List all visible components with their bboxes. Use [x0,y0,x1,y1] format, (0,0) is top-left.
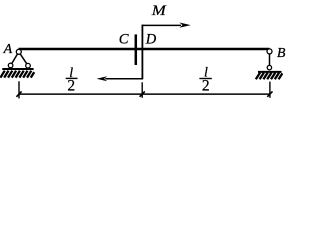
svg-text:D: D [145,31,157,47]
svg-text:A: A [3,42,13,57]
roller support B: ground line [258,71,282,73]
pin support A: ground line [2,68,33,70]
dimension line [19,93,270,95]
pin support A: bottom right roller circle [26,63,31,68]
svg-text:M: M [151,3,168,19]
roller support B: ground hatching [256,73,282,80]
dimension slash mark middle [140,91,145,96]
roller support B: bottom hinge circle [267,65,271,69]
section cut bar at C-D [135,34,138,65]
label A [3,42,13,57]
dimension slash mark right [267,91,272,96]
label C [119,32,129,48]
label D [145,31,157,47]
dimension label l/2 left: fraction bar [66,77,78,79]
pin support A: ground hatching [0,71,34,78]
moment couple vertical line through the cut [141,25,143,79]
pin support A: top hinge circle [16,49,21,54]
roller support B: link bar [269,52,271,68]
dimension slash mark left [16,91,21,96]
dimension label l/2 right: fraction bar [199,78,211,80]
dimension label l/2 left: numerator l [69,66,73,81]
label M [151,3,168,19]
roller support B: top hinge circle [267,49,272,54]
moment couple top arrowhead [179,23,190,28]
pin support A: bottom left roller circle [8,63,13,68]
dimension extension tick left (at A) [18,81,20,98]
dimension label l/2 right: numerator l [204,66,208,81]
dimension label l/2 right: denominator 2 [202,78,210,95]
pin support A: right leg [19,52,28,66]
dimension extension tick right (at B) [269,82,271,98]
svg-text:C: C [119,32,129,48]
dimension extension tick middle (at cut) [141,82,143,98]
svg-text:B: B [277,46,286,61]
svg-text:2: 2 [202,78,210,95]
svg-text:2: 2 [67,78,75,95]
label B [277,46,286,61]
moment couple bottom arrow shaft [105,78,143,80]
moment couple bottom arrowhead [97,76,108,81]
pin support A: left leg [11,52,19,66]
beam AB [19,48,270,51]
dimension label l/2 left: denominator 2 [67,78,75,95]
moment couple top arrow shaft [142,24,181,26]
